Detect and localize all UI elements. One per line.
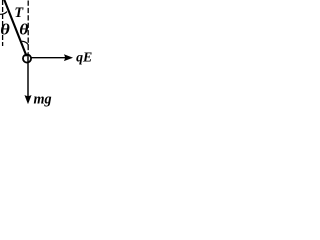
angle arc at pivot xyxy=(0,12,7,15)
dashed vertical reference line (right, through ball) xyxy=(27,1,29,54)
svg-text:T: T xyxy=(14,5,24,21)
svg-text:θ: θ xyxy=(19,20,28,38)
dashed vertical reference line (left, through pivot) xyxy=(2,0,4,46)
string under tension T xyxy=(4,0,26,56)
ball (charged sphere) xyxy=(23,54,31,62)
background xyxy=(0,0,92,108)
qE arrow shaft xyxy=(31,57,66,59)
angle arc at ball xyxy=(22,41,29,45)
svg-text:qE: qE xyxy=(76,50,92,65)
wire: vertical through ball + mg arrow shaft xyxy=(27,54,29,97)
svg-text:θ: θ xyxy=(0,20,10,38)
svg-text:mg: mg xyxy=(34,92,52,108)
qE arrowhead xyxy=(65,55,72,61)
mg arrowhead xyxy=(25,96,31,104)
